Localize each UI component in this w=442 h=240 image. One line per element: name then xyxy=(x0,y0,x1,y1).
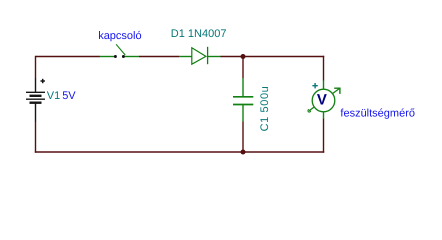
battery V1 xyxy=(26,78,45,121)
wire top-left segment xyxy=(36,56,101,58)
wire left vertical lower xyxy=(35,121,37,152)
voltmeter VM1 plus polarity mark xyxy=(312,83,317,88)
switch contact dot left xyxy=(114,55,117,58)
junction node top (diode/capacitor) xyxy=(241,54,246,59)
diode D1 xyxy=(179,47,221,64)
svg-text:V1: V1 xyxy=(47,90,60,102)
switch S1 lever (open) xyxy=(116,44,125,55)
switch S1 right lead xyxy=(124,56,139,58)
svg-text:V: V xyxy=(317,91,327,108)
wire capacitor branch lower xyxy=(242,122,244,153)
wire capacitor branch upper xyxy=(242,57,244,79)
wire bottom xyxy=(35,151,324,153)
svg-text:C1 500u: C1 500u xyxy=(259,86,271,132)
switch S1 left lead xyxy=(100,56,115,58)
svg-text:feszültségmérő: feszültségmérő xyxy=(340,108,415,120)
wire right vertical lower xyxy=(323,119,325,153)
wire top-middle segment (switch to diode) xyxy=(139,56,180,58)
voltmeter VM1 arrow xyxy=(308,88,340,112)
wire top-right segment (diode to right corner) xyxy=(220,56,324,58)
capacitor C1 xyxy=(233,78,253,122)
voltmeter VM1 top lead xyxy=(323,80,325,88)
svg-text:5V: 5V xyxy=(62,90,76,102)
junction node bottom (capacitor/ground rail) xyxy=(241,150,246,155)
battery plus polarity mark xyxy=(41,79,45,83)
svg-text:D1 1N4007: D1 1N4007 xyxy=(171,28,227,40)
wire right vertical upper xyxy=(323,56,325,81)
voltmeter VM1 bottom lead xyxy=(323,112,325,119)
voltmeter VM1 body circle xyxy=(312,89,335,112)
svg-text:kapcsoló: kapcsoló xyxy=(98,30,141,42)
wire left vertical upper xyxy=(35,56,37,79)
switch contact dot right xyxy=(122,55,125,58)
voltmeter VM1 arrowhead xyxy=(334,88,340,94)
